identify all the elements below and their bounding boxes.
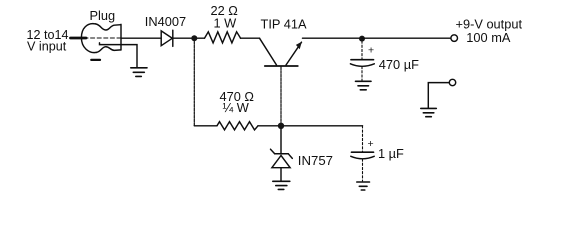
wire node A down xyxy=(193,42,195,126)
wire node B to output terminal xyxy=(362,37,451,39)
svg-text:1 W: 1 W xyxy=(214,15,238,30)
transistor Q1 TIP 41A xyxy=(260,17,307,67)
ground return xyxy=(421,108,437,116)
ground zener xyxy=(273,181,290,189)
svg-text:¼ W: ¼ W xyxy=(223,100,250,115)
diode D1 IN4007 xyxy=(145,14,186,47)
node B junction xyxy=(359,36,365,42)
node A junction xyxy=(191,35,197,41)
wire plug to diode xyxy=(121,37,161,39)
ground C2 xyxy=(357,182,370,190)
svg-text:TIP 41A: TIP 41A xyxy=(261,17,307,32)
wire plug sleeve xyxy=(100,43,138,68)
polarity minus sign xyxy=(91,59,100,61)
capacitor C1 470 uF xyxy=(350,41,419,81)
wire node C to zener xyxy=(280,129,282,153)
wire input stub xyxy=(71,37,87,40)
wire return to ground xyxy=(428,83,449,108)
svg-text:1 µF: 1 µF xyxy=(378,146,404,161)
svg-text:V input: V input xyxy=(27,40,67,54)
wire resistor to transistor xyxy=(241,37,260,39)
svg-text:Plug: Plug xyxy=(90,8,116,23)
resistor R1 22 ohm 1 W xyxy=(205,3,241,43)
terminal output return xyxy=(449,79,455,85)
ground C1 xyxy=(356,81,372,90)
wire emitter to node B xyxy=(303,37,363,39)
ground plug sleeve xyxy=(131,68,147,77)
svg-text:100 mA: 100 mA xyxy=(466,30,511,45)
wire bottom row right xyxy=(258,125,363,127)
node C junction xyxy=(278,123,284,129)
zener D2 IN757 xyxy=(271,149,334,181)
svg-text:+: + xyxy=(368,45,374,57)
resistor R2 470 ohm quarter W xyxy=(217,89,258,130)
svg-text:IN4007: IN4007 xyxy=(145,14,186,29)
wire bottom row left xyxy=(194,125,217,127)
capacitor C2 1 uF xyxy=(351,126,404,181)
svg-text:470 µF: 470 µF xyxy=(379,57,419,72)
svg-text:+: + xyxy=(368,138,374,150)
terminal +9V output xyxy=(451,17,523,45)
svg-text:IN757: IN757 xyxy=(298,153,333,168)
plug J1 xyxy=(81,8,121,52)
input voltage label xyxy=(27,28,69,54)
wire base down xyxy=(280,67,282,123)
wire diode to node A xyxy=(173,37,204,39)
